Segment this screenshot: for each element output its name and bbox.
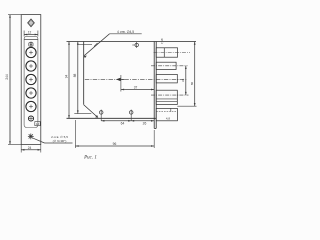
svg-text:24: 24 [28, 146, 32, 150]
svg-text:94: 94 [64, 75, 68, 79]
svg-text:88: 88 [73, 74, 77, 78]
svg-text:64: 64 [121, 121, 125, 125]
svg-text:7,18: 7,18 [160, 38, 164, 44]
svg-text:37: 37 [134, 86, 138, 90]
svg-text:80: 80 [190, 82, 194, 86]
svg-text:4,8: 4,8 [166, 117, 171, 121]
svg-text:(∅ 9×90°): (∅ 9×90°) [53, 139, 67, 143]
svg-text:36: 36 [181, 78, 185, 82]
svg-text:4 отв. ∅4,5: 4 отв. ∅4,5 [117, 30, 134, 34]
svg-text:Рис. 1: Рис. 1 [83, 155, 97, 160]
svg-text:244: 244 [5, 74, 9, 80]
svg-text:26: 26 [143, 121, 147, 125]
svg-text:12: 12 [28, 30, 32, 34]
svg-text:96: 96 [113, 142, 117, 146]
svg-text:12: 12 [36, 122, 40, 126]
